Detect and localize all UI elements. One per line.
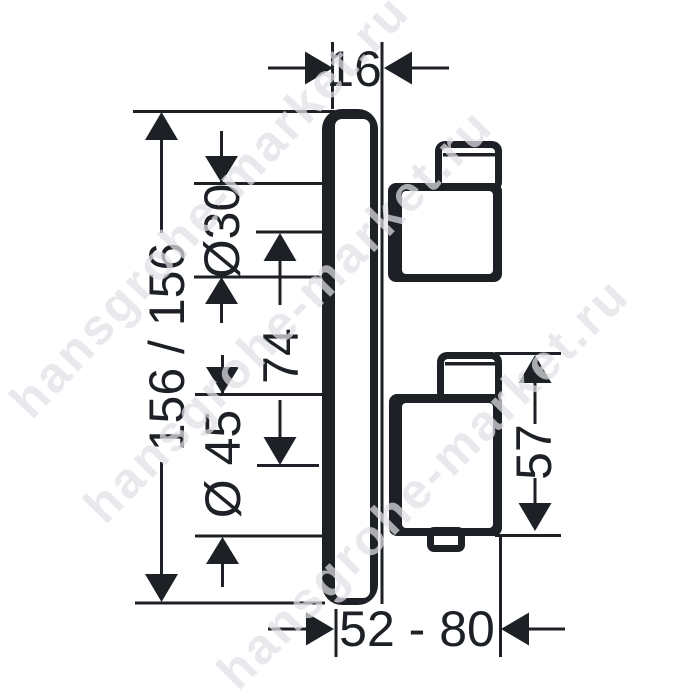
dim 16: right leader line [412,67,449,70]
dim 57: top extension line [495,352,561,355]
top knob body [388,183,502,282]
dim O45: down arrow [206,367,239,394]
dim 52-80: left extension line [335,609,338,657]
dim 57: up arrow [519,355,552,383]
dim O45: lower tail line [221,562,224,587]
dim 74: dimension line lower segment [279,400,282,440]
bottom knob body [389,394,502,536]
dim 16: left arrow [305,52,333,85]
dim 156/156: dimension line lower segment [160,462,163,576]
dim 156/156: bottom arrow [145,574,178,602]
dim O45: bottom extension line [195,535,323,538]
dim O30: down arrow [205,156,238,183]
dim O30: up arrow [205,277,238,304]
dim 52-80: right-pointing arrow [306,613,334,646]
svg-text:52 - 80: 52 - 80 [339,601,495,657]
dim 74: up arrow [264,233,297,261]
plate front-face line (right extension of 16 dim) [381,42,384,604]
dim 57: dimension line lower segment [534,478,537,504]
top knob step [435,141,502,192]
dim O30: upper tail line [220,131,223,183]
dim 16: right arrow [384,52,412,85]
dim 52-80: right leader line [529,628,565,631]
dim 156/156: top extension line [133,110,335,113]
dim O30: bottom extension line [194,276,323,279]
dim 74: top extension line [256,231,324,234]
dim O45: upper tail line [221,355,224,393]
dim 57: dimension line upper segment [534,381,537,424]
dim 156/156: bottom extension line [135,602,325,605]
dim 52-80: left-pointing arrow [501,613,529,646]
dim O30: lower tail line [220,302,223,323]
dim 52-80: left leader line [268,628,307,631]
dim 74: down arrow [264,437,297,465]
dim 74: dimension line upper segment [279,259,282,305]
dim 52-80: right extension line [499,535,502,657]
dim 74: bottom extension line [257,464,319,467]
escutcheon plate (side profile) [322,109,378,605]
dim 156/156: top arrow [145,112,178,140]
bottom knob step [437,352,502,402]
dim O30: top extension line [194,182,323,185]
bottom knob tab [427,527,465,552]
dim O45: up arrow [206,537,239,564]
dim 57: down arrow [519,503,552,531]
dim 156/156: dimension line upper segment [160,138,163,233]
svg-text:57: 57 [506,424,562,480]
top knob cap seam line [443,153,495,157]
dim 16: left extension line [331,42,334,109]
dim 57: bottom extension line [495,534,561,537]
dim O45: top extension line [195,393,323,396]
bottom knob cap seam line [445,362,496,366]
dim 16: left leader line [268,67,306,70]
